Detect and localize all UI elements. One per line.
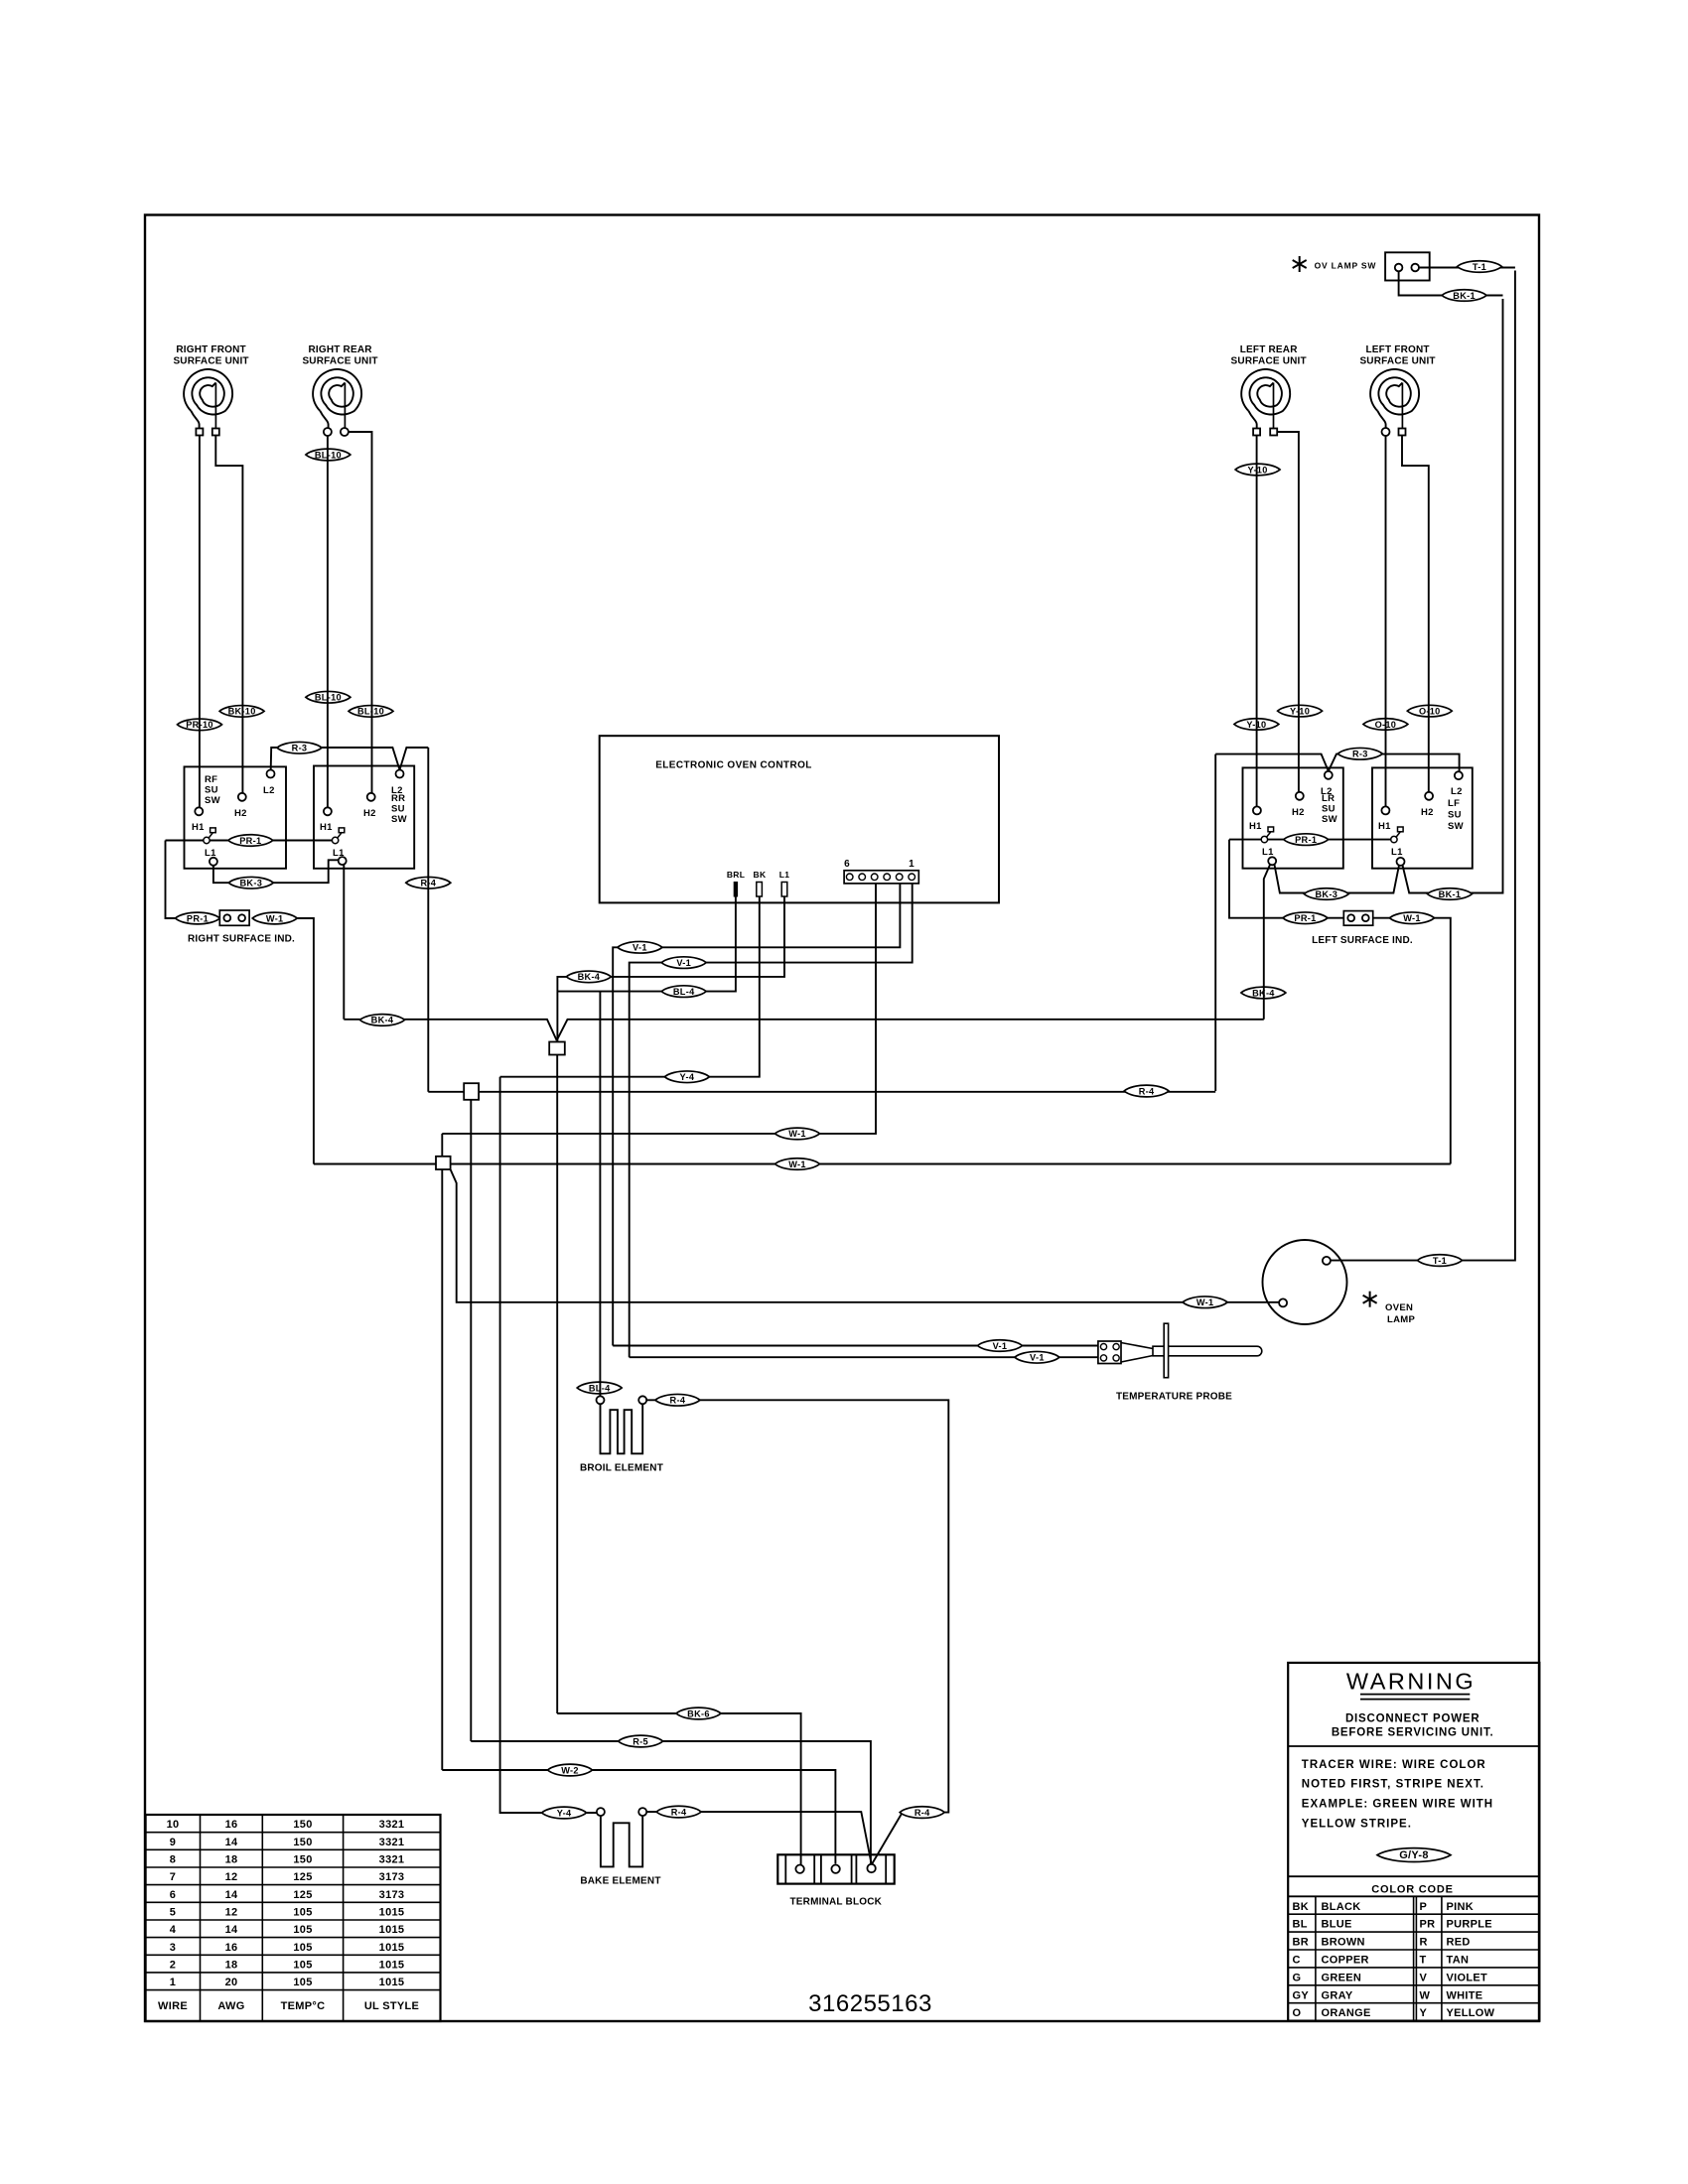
svg-text:W-1: W-1 [788,1160,806,1169]
wire BK-3 left net [213,860,339,883]
svg-text:R-3: R-3 [292,744,308,753]
svg-text:RF: RF [205,774,217,785]
svg-text:150: 150 [293,1854,312,1866]
svg-text:1: 1 [170,1977,176,1988]
indicator right surface lamp [219,910,249,925]
svg-text:RED: RED [1447,1937,1471,1949]
svg-text:1015: 1015 [379,1942,405,1954]
wire RR L1 down [343,865,345,1020]
svg-text:H2: H2 [1292,807,1305,818]
svg-text:R-4: R-4 [914,1808,930,1818]
svg-text:O-10: O-10 [1375,720,1397,730]
svg-text:1015: 1015 [379,1924,405,1936]
label V-1 probe upper [978,1340,1023,1352]
svg-text:9: 9 [170,1837,176,1848]
svg-text:PR: PR [1420,1919,1436,1931]
svg-text:125: 125 [293,1871,312,1883]
svg-text:C: C [1293,1955,1301,1967]
svg-text:PINK: PINK [1447,1901,1474,1913]
svg-text:SURFACE UNIT: SURFACE UNIT [302,356,377,367]
text bake element [580,1876,660,1887]
svg-text:OVEN: OVEN [1385,1302,1413,1313]
svg-text:BLUE: BLUE [1322,1919,1352,1931]
svg-text:TAN: TAN [1447,1955,1470,1967]
svg-text:OV LAMP SW: OV LAMP SW [1315,261,1377,271]
svg-text:SURFACE UNIT: SURFACE UNIT [173,356,248,367]
text warning title [1346,1669,1476,1700]
wire gauge table [146,1815,441,2021]
svg-text:H1: H1 [320,822,333,833]
wire W-1 from connector pin 4 [442,884,876,1134]
svg-text:V-1: V-1 [676,958,691,968]
text ov lamp sw [1315,261,1377,271]
svg-text:L2: L2 [263,785,275,796]
svg-text:COPPER: COPPER [1322,1955,1369,1967]
svg-text:YELLOW STRIPE.: YELLOW STRIPE. [1302,1819,1412,1831]
svg-text:316255163: 316255163 [808,1990,932,2017]
svg-text:H1: H1 [192,822,205,833]
svg-text:18: 18 [225,1960,238,1972]
svg-text:V: V [1420,1972,1428,1983]
svg-text:1015: 1015 [379,1977,405,1988]
svg-text:L2: L2 [1321,786,1333,797]
wire LR L2 branch down [1214,754,1216,1091]
wire RF H2 lead [215,436,242,793]
svg-text:WIRE: WIRE [158,2000,188,2012]
terminal RF H2 [234,793,247,819]
wire R-4 bake run [646,1812,871,1863]
wire left surface ind feed [1229,840,1283,918]
wire LR H1 lead [1256,436,1258,807]
svg-text:EXAMPLE: GREEN WIRE WITH: EXAMPLE: GREEN WIRE WITH [1302,1799,1493,1811]
svg-text:16: 16 [225,1942,238,1954]
terminal bake left [597,1808,605,1816]
svg-text:4: 4 [170,1924,177,1936]
wire right surface ind to W-1 net [297,918,314,1164]
svg-text:R-4: R-4 [1139,1086,1155,1096]
label BK-10 on RF H2 lead [219,706,264,718]
wire BK-6 run [557,1713,800,1865]
svg-text:WHITE: WHITE [1447,1989,1483,2001]
svg-text:TEMPERATURE PROBE: TEMPERATURE PROBE [1116,1392,1232,1403]
svg-text:GREEN: GREEN [1322,1972,1362,1983]
svg-text:BK-1: BK-1 [1453,291,1476,301]
svg-text:3321: 3321 [379,1837,405,1848]
text temperature probe [1116,1392,1232,1403]
wire R-4 horizontal net [428,1091,1215,1093]
svg-text:LEFT FRONT: LEFT FRONT [1365,344,1429,355]
terminal RF L1 [210,858,217,866]
svg-text:6: 6 [844,859,850,870]
text terminal block [789,1897,882,1908]
svg-text:YELLOW: YELLOW [1447,2007,1495,2019]
svg-text:SU: SU [1448,810,1462,821]
wire R-3 left net [271,748,429,778]
svg-text:LAMP: LAMP [1387,1314,1415,1325]
svg-text:V-1: V-1 [1030,1353,1045,1363]
svg-text:DISCONNECT POWER: DISCONNECT POWER [1345,1713,1479,1725]
svg-text:2: 2 [170,1960,176,1972]
label R-4 on left vertical [406,877,451,888]
terminal LF coil right [1399,429,1406,436]
label W-1 right surface ind [252,912,297,924]
temperature probe [1098,1323,1262,1378]
svg-text:BL-10: BL-10 [315,450,342,460]
label BL-4 upper [661,986,706,998]
label V-1 probe lower [1015,1351,1059,1363]
color code table [1288,1896,1539,2020]
label V-1 second [661,957,706,969]
label W-2 [548,1764,593,1776]
svg-text:8: 8 [170,1854,176,1866]
wire T-1 lamp line [1331,271,1515,1261]
label Y-4 upper [664,1071,709,1083]
label BK-6 [676,1707,721,1719]
oven lamp switch box [1385,252,1430,280]
wire BK-3 right net [1264,865,1399,1020]
svg-text:BK-10: BK-10 [228,707,256,717]
svg-text:W-1: W-1 [266,913,284,923]
wire left surface ind to W-1 net [1433,918,1450,1164]
terminal oven lamp top right [1323,1257,1331,1265]
wire PR-1 right pivot line [1229,839,1391,841]
label Y-10 on LR H1 lead [1235,464,1280,476]
wire W-2 run [442,1770,835,1864]
label O-10 on LF H1 lead [1363,719,1408,731]
svg-text:Y-10: Y-10 [1290,706,1310,716]
svg-text:H2: H2 [363,808,376,819]
svg-text:H2: H2 [1421,807,1434,818]
svg-text:105: 105 [293,1977,312,1988]
wire BK-4 from L1 pin [557,896,784,1042]
terminal LR H2 [1292,792,1305,818]
wire splice W down [441,1169,443,1770]
terminal LR coil right [1270,429,1277,436]
warning box frame [1288,1663,1539,2021]
svg-text:TEMP°C: TEMP°C [281,2000,326,2012]
wire R-5 run [471,1741,871,1863]
svg-text:Y-4: Y-4 [680,1072,695,1082]
label W-1 upper [775,1128,820,1140]
svg-text:BROWN: BROWN [1322,1937,1365,1949]
switch RF pivot [204,828,216,859]
label PR-10 on RF H1 lead [178,719,222,731]
label PR-1 right surface ind [176,912,220,924]
svg-text:PR-1: PR-1 [1295,835,1317,845]
wire R-4 diagonal from oval [872,1813,903,1865]
wire BK-1 top [1399,271,1503,295]
wire R-3 right net [1215,754,1459,772]
terminal lamp switch right [1411,264,1419,272]
svg-text:PURPLE: PURPLE [1447,1919,1492,1931]
svg-text:1015: 1015 [379,1960,405,1972]
text oven lamp [1385,1302,1415,1325]
label R-4 bake [656,1806,701,1818]
label Y-10 on LR H2 lead [1278,705,1323,717]
svg-text:R-5: R-5 [633,1736,648,1746]
svg-text:COLOR CODE: COLOR CODE [1371,1884,1454,1896]
svg-text:GY: GY [1293,1989,1310,2001]
label BK-3 right [1304,888,1348,900]
oven lamp circle [1263,1240,1347,1324]
svg-text:3321: 3321 [379,1819,405,1831]
svg-text:RIGHT FRONT: RIGHT FRONT [176,344,246,355]
wire splice to R-5 [470,1100,472,1741]
svg-text:VIOLET: VIOLET [1447,1972,1488,1983]
svg-text:W-1: W-1 [788,1129,806,1139]
label W-1 lamp [1183,1297,1227,1308]
svg-text:BL-4: BL-4 [673,987,695,997]
svg-text:3: 3 [170,1942,176,1954]
label BK-1 top [1442,290,1486,302]
wire R-4 left vertical [427,748,429,1092]
wire RR H1 lead [327,436,329,808]
svg-text:105: 105 [293,1924,312,1936]
svg-text:O: O [1293,2007,1302,2019]
svg-text:125: 125 [293,1889,312,1901]
pin BK of EOC [754,870,767,896]
page border frame [145,215,1539,2022]
label O-10 on LF H2 lead [1407,705,1452,717]
svg-text:105: 105 [293,1907,312,1919]
wire RR H2 lead [348,432,371,793]
svg-text:BL: BL [1293,1919,1308,1931]
svg-text:BL-10: BL-10 [357,707,384,717]
label R-3 right [1337,748,1382,759]
wire LF H2 lead [1402,436,1429,792]
svg-text:H1: H1 [1378,821,1391,832]
svg-text:BRL: BRL [727,870,745,880]
text color code [1371,1884,1454,1896]
svg-text:LEFT REAR: LEFT REAR [1240,344,1298,355]
svg-text:18: 18 [225,1854,238,1866]
svg-text:14: 14 [225,1924,238,1936]
svg-text:GRAY: GRAY [1322,1989,1353,2001]
svg-text:BK-1: BK-1 [1439,889,1462,899]
svg-text:SW: SW [391,814,407,825]
wire Y-4 bake run [500,1077,597,1813]
svg-text:L1: L1 [1262,847,1274,858]
label BK-1 lower [1428,888,1473,900]
terminal RR coil right [341,428,349,436]
svg-text:R-4: R-4 [671,1807,687,1817]
label BK-4 left [360,1015,405,1026]
svg-text:BK-4: BK-4 [578,972,601,982]
svg-text:20: 20 [225,1977,238,1988]
svg-text:3321: 3321 [379,1854,405,1866]
switch RR pivot [332,828,345,859]
svg-text:L2: L2 [1451,786,1463,797]
svg-text:TRACER WIRE: WIRE COLOR: TRACER WIRE: WIRE COLOR [1302,1759,1486,1771]
svg-text:12: 12 [225,1907,238,1919]
pin L1 of EOC [779,870,790,896]
broil element [601,1404,643,1453]
text tracer wire note [1302,1759,1493,1831]
text left surface ind [1312,935,1413,946]
switch box LR SU SW [1243,767,1343,868]
svg-text:UL STYLE: UL STYLE [364,2000,419,2012]
terminal bake right [638,1808,646,1816]
svg-text:PR-1: PR-1 [187,913,209,923]
terminal RR H1 [320,807,333,833]
wire left surface ind inner stubs [1328,917,1390,919]
indicator left surface lamp [1343,911,1372,926]
terminal oven lamp bottom left [1279,1298,1287,1306]
svg-text:T-1: T-1 [1433,1256,1447,1266]
terminal RF coil left [196,429,203,436]
terminal LF L2 [1451,771,1463,797]
bake element [601,1816,642,1866]
terminal LF H1 [1378,806,1391,832]
svg-text:BK-3: BK-3 [239,879,262,888]
terminal LF coil left [1382,428,1390,436]
svg-text:Y-4: Y-4 [557,1808,572,1818]
junction splice W [436,1157,451,1169]
svg-text:R: R [1420,1937,1428,1949]
svg-text:SW: SW [205,795,220,806]
label R-3 left [277,742,322,753]
svg-text:R-4: R-4 [670,1396,686,1406]
svg-text:W-1: W-1 [1196,1297,1214,1307]
terminal broil right [638,1396,646,1404]
terminal LF L1 [1397,858,1405,866]
svg-text:12: 12 [225,1871,238,1883]
wire RF H1 lead [199,436,201,808]
svg-text:BROIL ELEMENT: BROIL ELEMENT [580,1463,663,1474]
svg-text:1015: 1015 [379,1907,405,1919]
terminal broil left [597,1396,605,1404]
svg-text:W-2: W-2 [561,1765,579,1775]
svg-text:LEFT SURFACE IND.: LEFT SURFACE IND. [1312,935,1413,946]
svg-text:L2: L2 [391,785,403,796]
label V-1 upper [618,941,662,953]
wire V-1 probe lower [630,1356,1098,1358]
svg-text:SW: SW [1448,821,1464,832]
svg-text:BK: BK [754,870,767,880]
switch box RR SU SW [314,766,414,869]
svg-text:L1: L1 [1391,847,1403,858]
electronic oven control box [600,736,999,902]
svg-text:Y-10: Y-10 [1248,465,1268,475]
label PR-1 right boxes [1284,834,1329,846]
terminal RR L2 [391,770,404,797]
svg-text:SW: SW [1322,814,1337,825]
surface unit coil RF with label [173,344,248,432]
svg-text:16: 16 [225,1819,238,1831]
wire BL-4 broil lead [599,992,601,1397]
svg-text:SURFACE UNIT: SURFACE UNIT [1359,356,1435,367]
wire T-1 top [1419,267,1515,269]
svg-text:H1: H1 [1249,821,1262,832]
wire R-4 broil line [646,1400,948,1812]
wire splice W up [441,1134,443,1157]
label T-1 top [1458,261,1502,273]
label BL-10 on RR H2 lead [349,706,393,718]
wire PR-1 left pivot line [166,840,333,842]
label W-1 left surface ind [1390,912,1435,924]
svg-text:G/Y-8: G/Y-8 [1399,1849,1429,1861]
switch LF pivot [1391,827,1403,858]
text broil element [580,1463,663,1474]
svg-text:H2: H2 [234,808,247,819]
surface unit coil LF with label [1359,344,1435,432]
wire right surface ind feed [166,841,176,919]
svg-text:BK-4: BK-4 [1252,988,1275,998]
svg-text:T: T [1420,1955,1427,1967]
wire splice W diagonal to lamp [451,1169,1280,1302]
svg-text:PR-1: PR-1 [1294,913,1316,923]
surface unit coil RR with label [302,344,377,432]
svg-text:PR-1: PR-1 [239,836,261,846]
svg-text:ORANGE: ORANGE [1322,2007,1371,2019]
label Y-10 on LR H1 lead lower [1234,719,1279,731]
svg-text:RIGHT SURFACE IND.: RIGHT SURFACE IND. [188,934,295,945]
wire BK-1 lower [1403,299,1503,893]
label R-4 broil [655,1394,700,1406]
wire BL-4 from BRL pin [557,896,736,992]
part number 316255163 [808,1990,932,2017]
pin BRL of EOC [727,870,745,896]
svg-text:SU: SU [391,804,405,815]
svg-text:105: 105 [293,1960,312,1972]
label BK-4 mid [566,971,611,983]
surface unit coil LR with label [1231,344,1307,432]
svg-text:Y: Y [1420,2007,1428,2019]
svg-text:BK: BK [1293,1901,1310,1913]
terminal RF H1 [192,807,205,833]
terminal LR L2 [1321,771,1333,797]
svg-text:BK-4: BK-4 [371,1016,394,1025]
oven lamp asterisk [1363,1292,1377,1307]
svg-text:6: 6 [170,1889,176,1901]
svg-text:150: 150 [293,1819,312,1831]
svg-text:P: P [1420,1901,1428,1913]
svg-text:RIGHT REAR: RIGHT REAR [308,344,372,355]
terminal RF L2 [263,770,275,797]
svg-text:T-1: T-1 [1473,262,1486,272]
label Y-4 bake [542,1807,587,1819]
label BL-10 on RR H1 lead lower [306,691,351,703]
svg-text:R-3: R-3 [1352,750,1368,759]
wire Y-4 from BK pin [500,896,760,1077]
label BK-3 left [228,877,273,888]
label R-5 [619,1735,663,1747]
wire V-1 from connector pin 2 [613,884,900,1346]
terminal LR coil left [1253,429,1260,436]
svg-text:SU: SU [205,785,218,796]
label PR-1 left surface ind [1283,912,1328,924]
terminal LR H1 [1249,806,1262,832]
junction splice BK [549,1042,565,1055]
svg-text:Y-10: Y-10 [1246,720,1266,730]
svg-text:14: 14 [225,1837,238,1848]
svg-text:SU: SU [1322,804,1336,815]
svg-text:3173: 3173 [379,1889,405,1901]
terminal RR coil left [324,428,332,436]
svg-text:14: 14 [225,1889,238,1901]
svg-text:WARNING: WARNING [1346,1669,1476,1695]
terminal block [777,1854,894,1883]
wire V-1 from connector pin 1 [630,884,913,1357]
svg-text:BR: BR [1293,1937,1310,1949]
switch box RF SU SW [185,766,287,868]
svg-text:G: G [1293,1972,1302,1983]
svg-text:AWG: AWG [217,2000,244,2012]
switch box LF SU SW [1372,767,1473,868]
svg-text:O-10: O-10 [1419,706,1441,716]
svg-text:BL-10: BL-10 [315,693,342,703]
terminal LF H2 [1421,792,1434,818]
